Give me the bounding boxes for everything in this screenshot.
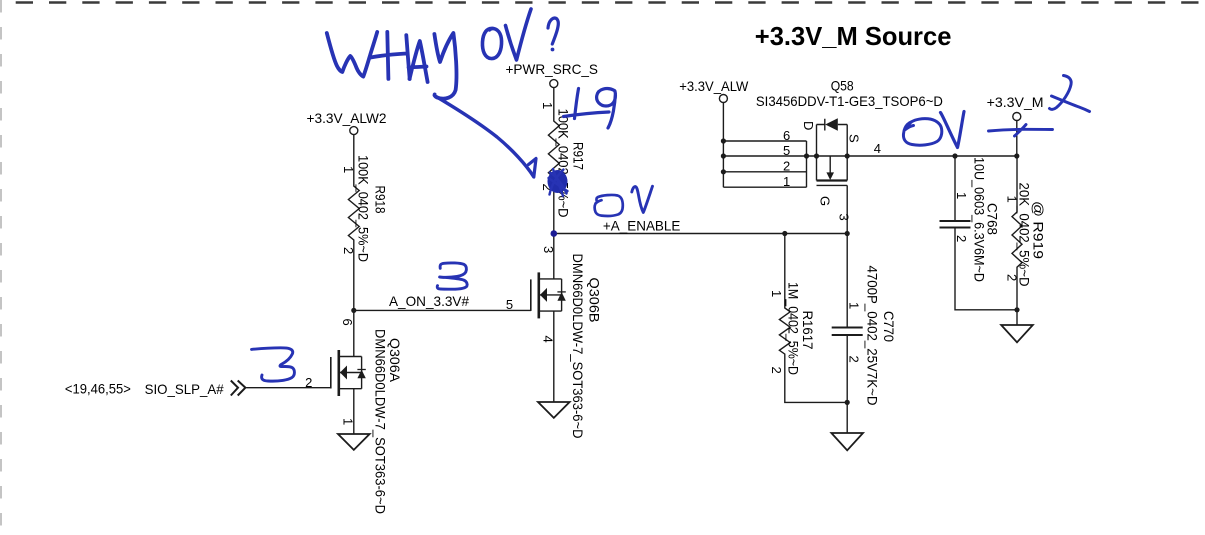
- svg-text:5: 5: [506, 297, 513, 312]
- svg-text:2: 2: [769, 367, 784, 374]
- svg-text:R917: R917: [571, 142, 587, 170]
- svg-text:6: 6: [340, 319, 355, 326]
- svg-text:1: 1: [847, 302, 862, 309]
- svg-text:+3.3V_ALW: +3.3V_ALW: [679, 78, 749, 94]
- svg-text:2: 2: [847, 356, 862, 363]
- svg-text:D: D: [801, 121, 816, 130]
- svg-text:+3.3V_M Source: +3.3V_M Source: [755, 21, 952, 51]
- svg-text:+3.3V_M: +3.3V_M: [987, 94, 1044, 110]
- svg-text:1: 1: [954, 192, 969, 199]
- svg-text:100K_0402_5%~D: 100K_0402_5%~D: [556, 109, 572, 218]
- svg-text:DMN66D0LDW-7_SOT363-6~D: DMN66D0LDW-7_SOT363-6~D: [373, 329, 389, 514]
- svg-text:+PWR_SRC_S: +PWR_SRC_S: [506, 61, 599, 77]
- svg-text:R918: R918: [373, 186, 389, 214]
- svg-text:1: 1: [341, 166, 356, 173]
- svg-text:4700P_0402_25V7K~D: 4700P_0402_25V7K~D: [865, 266, 881, 406]
- svg-text:Q306B: Q306B: [587, 278, 603, 323]
- svg-text:100K_0402_5%~D: 100K_0402_5%~D: [356, 155, 372, 262]
- svg-text:S: S: [847, 134, 862, 143]
- svg-text:<19,46,55>: <19,46,55>: [65, 381, 131, 397]
- svg-text:3: 3: [541, 246, 556, 253]
- svg-text:DMN66D0LDW-7_SOT363-6~D: DMN66D0LDW-7_SOT363-6~D: [570, 254, 586, 439]
- svg-text:4: 4: [874, 141, 881, 156]
- svg-text:1: 1: [540, 102, 555, 109]
- svg-text:4: 4: [541, 336, 556, 343]
- svg-text:C768: C768: [985, 203, 1001, 235]
- svg-text:2: 2: [783, 159, 790, 174]
- svg-text:1: 1: [340, 418, 355, 425]
- svg-text:C770: C770: [881, 311, 897, 342]
- svg-text:20K_0402_5%~D: 20K_0402_5%~D: [1017, 183, 1033, 287]
- svg-text:1: 1: [783, 174, 790, 189]
- svg-text:2: 2: [305, 375, 312, 390]
- svg-text:1: 1: [769, 290, 784, 297]
- svg-text:1M_0402_5%~D: 1M_0402_5%~D: [785, 282, 801, 375]
- svg-text:2: 2: [341, 247, 356, 254]
- svg-text:G: G: [818, 196, 833, 206]
- svg-text:5: 5: [783, 143, 790, 158]
- svg-text:A_ON_3.3V#: A_ON_3.3V#: [389, 293, 469, 309]
- svg-text:Q306A: Q306A: [387, 338, 403, 383]
- svg-text:Q58: Q58: [831, 78, 854, 94]
- svg-text:SIO_SLP_A#: SIO_SLP_A#: [145, 381, 224, 397]
- svg-text:3: 3: [837, 214, 852, 221]
- svg-text:@ R919: @ R919: [1031, 201, 1047, 259]
- svg-text:+3.3V_ALW2: +3.3V_ALW2: [307, 110, 387, 126]
- svg-text:+A_ENABLE: +A_ENABLE: [603, 218, 681, 234]
- svg-text:SI3456DDV-T1-GE3_TSOP6~D: SI3456DDV-T1-GE3_TSOP6~D: [756, 93, 943, 109]
- svg-text:2: 2: [954, 235, 969, 242]
- svg-text:R1617: R1617: [800, 311, 816, 350]
- svg-text:6: 6: [783, 128, 790, 143]
